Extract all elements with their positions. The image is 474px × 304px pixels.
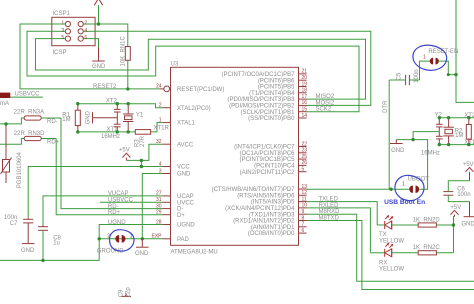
svg-text:1u: 1u bbox=[53, 240, 60, 246]
svg-text:GND: GND bbox=[461, 221, 474, 227]
U3 pin 4 VCC bbox=[159, 161, 191, 170]
U3 pin EXP PAD bbox=[151, 234, 189, 243]
svg-text:MISO2: MISO2 bbox=[316, 94, 335, 100]
svg-text:1: 1 bbox=[61, 21, 64, 27]
svg-text:RXLED: RXLED bbox=[319, 203, 340, 209]
junction PAD/GND drop bbox=[141, 237, 144, 240]
svg-text:RESET2: RESET2 bbox=[93, 84, 117, 90]
capacitor C8 1u bbox=[38, 225, 62, 261]
power +5V symbol (AVCC) bbox=[119, 148, 130, 161]
svg-text:(RXD1/AIN1/INT2)PD2: (RXD1/AIN1/INT2)PD2 bbox=[233, 219, 295, 225]
crystal Y2 16MHz bbox=[435, 112, 454, 144]
svg-text:(OC1A/PCINT8)PC6: (OC1A/PCINT8)PC6 bbox=[239, 151, 295, 157]
wire net XT2 (right) bbox=[439, 113, 474, 119]
svg-text:13: 13 bbox=[302, 184, 308, 190]
wire net MOSI2 (ICSP pin4 to U3 pin 16) bbox=[95, 31, 371, 106]
svg-text:GND: GND bbox=[86, 110, 92, 124]
svg-text:MOSI2: MOSI2 bbox=[316, 100, 335, 106]
U3 pin 22 (INT4/ICP1/CLK0)PC7 bbox=[234, 141, 307, 150]
svg-text:1K RN2C: 1K RN2C bbox=[413, 245, 441, 251]
junction Y2 caps top bbox=[438, 116, 441, 119]
svg-text:15: 15 bbox=[302, 107, 308, 113]
svg-text:C9: C9 bbox=[119, 289, 125, 297]
junction RESET-EN net bbox=[454, 73, 457, 76]
svg-text:ICSP1: ICSP1 bbox=[53, 11, 71, 17]
U3 pin 16 (PDI/MOSI/PCINT2)PB2 bbox=[229, 100, 307, 109]
svg-text:27R: 27R bbox=[140, 135, 146, 147]
ground GND (Y1 caps, rotated) bbox=[86, 110, 118, 124]
svg-text:(CTS/HWB/AIN6/TO/INT7)PD7: (CTS/HWB/AIN6/TO/INT7)PD7 bbox=[212, 187, 296, 193]
svg-text:VUCAP: VUCAP bbox=[108, 191, 129, 197]
svg-text:D+: D+ bbox=[177, 213, 185, 219]
svg-text:USBVCC: USBVCC bbox=[15, 91, 41, 97]
svg-text:22: 22 bbox=[302, 141, 308, 147]
svg-text:RD-: RD- bbox=[47, 119, 58, 125]
svg-text:(PCINT6)PB6: (PCINT6)PB6 bbox=[258, 78, 295, 84]
capacitor C6 100n bbox=[443, 181, 470, 202]
svg-text:(SCLK/PCINT1)PB1: (SCLK/PCINT1)PB1 bbox=[240, 110, 295, 116]
junction C8/ground rail bbox=[41, 259, 44, 262]
power +5V symbol (top, cut off) bbox=[94, 0, 102, 24]
resistor R2 1M bbox=[455, 118, 472, 145]
wire U3 GND pin3 drop bbox=[142, 174, 162, 239]
ground GND (C6) bbox=[461, 202, 474, 228]
wire net TXLED (U3 pin11 to TX LED) bbox=[307, 197, 378, 226]
svg-text:DTR: DTR bbox=[383, 100, 389, 113]
svg-text:C5: C5 bbox=[397, 72, 403, 80]
wire net USBVCC (label stub at U3 pin31) bbox=[100, 198, 163, 204]
wire PAD/EXP to GND and GROUND jumper bbox=[0, 239, 163, 261]
U3 pin 26 (PCINT10)PC4 bbox=[254, 160, 307, 169]
annotation blue circle around UBOOT bbox=[395, 175, 424, 200]
U3 pin 28 UGND bbox=[156, 219, 195, 228]
svg-text:+5V: +5V bbox=[119, 148, 130, 154]
svg-text:100n: 100n bbox=[4, 215, 17, 221]
capacitor C 22p upper (Y1 load) bbox=[114, 104, 121, 118]
svg-text:RESET(PC1/DW): RESET(PC1/DW) bbox=[177, 87, 224, 93]
wire net RXLED (U3 pin10 to RX LED) bbox=[307, 203, 371, 253]
resistor RN2C 1K bbox=[413, 245, 454, 255]
junction caps top bbox=[116, 102, 119, 105]
svg-text:M8TXD: M8TXD bbox=[319, 215, 340, 221]
svg-text:Y1: Y1 bbox=[136, 112, 144, 118]
jumper UBOOT (solder jumper) bbox=[402, 176, 429, 193]
U3 pin 9 (TXD1/INT3)PD3 bbox=[249, 209, 307, 218]
capacitor 22p upper (Y2 load) bbox=[436, 118, 443, 132]
svg-text:(PCINT10)PC4: (PCINT10)PC4 bbox=[254, 164, 295, 170]
wire vertical from top to RESET-EN bbox=[455, 0, 457, 75]
svg-text:26: 26 bbox=[302, 160, 308, 166]
wire net XT2 bbox=[78, 99, 163, 108]
svg-text:(PCINT5)PB5: (PCINT5)PB5 bbox=[258, 85, 295, 91]
U3 pin 23 (OC1A/PCINT8)PC6 bbox=[239, 148, 307, 157]
svg-text:10K RN1C: 10K RN1C bbox=[121, 35, 127, 66]
jumper RESET-EN (solder jumper) bbox=[420, 49, 459, 80]
wire VCC rail to C7 bbox=[28, 160, 162, 217]
junction +5V/VCC riser top bbox=[140, 159, 143, 162]
svg-text:YELLOW: YELLOW bbox=[379, 267, 404, 273]
wire Y2 caps common to GND and UBOOT bbox=[396, 132, 439, 190]
junction Y2 top bbox=[447, 116, 450, 119]
svg-text:RESET-EN: RESET-EN bbox=[428, 49, 458, 55]
ground GND (Y2) bbox=[390, 140, 405, 155]
junction caps bottom bbox=[116, 130, 119, 133]
svg-text:16MHz: 16MHz bbox=[101, 134, 120, 140]
svg-text:UCAP: UCAP bbox=[177, 194, 194, 200]
svg-text:22p: 22p bbox=[126, 287, 132, 298]
svg-text:(XCK/AIN4/PCINT12)PD4: (XCK/AIN4/PCINT12)PD4 bbox=[225, 206, 295, 212]
U3 pin 30 D- bbox=[156, 203, 183, 212]
U3 pin 20 (PCINT6)PB6 bbox=[258, 75, 307, 84]
svg-text:+5V: +5V bbox=[450, 205, 461, 211]
svg-text:GND: GND bbox=[21, 248, 35, 254]
wire net RD+ to U3 pin29 bbox=[56, 139, 162, 217]
U3 pin 13 (CTS/HWB/AIN6/TO/INT7)PD7 bbox=[212, 184, 308, 193]
svg-text:RD+: RD+ bbox=[47, 140, 60, 146]
resistor RN3D 22R bbox=[14, 131, 60, 146]
svg-text:Y2: Y2 bbox=[435, 112, 443, 118]
U3 pin 8 (RXD1/AIN1/INT2)PD2 bbox=[233, 215, 306, 224]
junction UGND/GROUND bbox=[98, 237, 101, 240]
U3 pin 31 UVCC bbox=[156, 197, 195, 206]
U3 pin 21 (PCINT7/OC0A/OC1C)PB7 bbox=[221, 69, 307, 78]
U3 pin 12 (RTS/AIN5/INT6)PD6 bbox=[237, 190, 307, 199]
svg-text:16MHz: 16MHz bbox=[421, 150, 440, 156]
fuse F1 (USBVCC, cut off at edge) bbox=[0, 91, 43, 107]
svg-text:11: 11 bbox=[302, 196, 307, 202]
svg-text:SCK2: SCK2 bbox=[316, 107, 332, 113]
U3 pin 7 (AIN0/INT1)PD1 bbox=[251, 222, 307, 231]
annotation blue circle around GROUND bbox=[110, 230, 135, 251]
resistor RN3A 22R bbox=[14, 110, 61, 126]
svg-text:(PDI/MOSI/PCINT2)PB2: (PDI/MOSI/PCINT2)PB2 bbox=[229, 104, 295, 110]
U3 pin 32 AVCC bbox=[156, 139, 194, 148]
svg-text:GND: GND bbox=[135, 251, 149, 257]
svg-text:(PCINT7/OC0A/OC1C)PB7: (PCINT7/OC0A/OC1C)PB7 bbox=[221, 72, 295, 78]
svg-text:(PCINT9/OC1B)PC5: (PCINT9/OC1B)PC5 bbox=[239, 157, 295, 163]
wire net SCK2 (ICSP pin3 loop to U3 pin 15) bbox=[27, 31, 359, 112]
junction Y1 bottom bbox=[127, 130, 130, 133]
U3 pin 18 (T1/PCINT4)PB4 bbox=[249, 88, 307, 97]
svg-text:3: 3 bbox=[61, 28, 64, 34]
wire net XT1 (right) bbox=[439, 140, 474, 146]
wire net MISO2 (ICSP pin5 loop to U3 pin 17) bbox=[36, 39, 366, 100]
resistor R3 27R bbox=[135, 130, 151, 147]
svg-text:1M: 1M bbox=[62, 117, 70, 123]
ground GND (C7) bbox=[21, 244, 35, 255]
U3 pin 14 (SS/PCINT0)PB0 bbox=[248, 113, 307, 122]
junction Y1 top bbox=[127, 102, 130, 105]
svg-text:XTAL1: XTAL1 bbox=[177, 121, 196, 127]
svg-text:9: 9 bbox=[302, 209, 305, 215]
svg-text:U3: U3 bbox=[171, 62, 179, 68]
jumper GROUND (solder jumper, annotated) bbox=[97, 233, 133, 254]
svg-text:XTAL2(PC0): XTAL2(PC0) bbox=[177, 106, 211, 112]
power +5V symbol (LEDs) bbox=[450, 205, 461, 253]
svg-text:6: 6 bbox=[302, 228, 305, 234]
wire net D+ from USB bbox=[0, 139, 24, 145]
resistor RN2D 1K bbox=[413, 218, 454, 227]
svg-text:GND: GND bbox=[391, 148, 405, 154]
svg-text:1M: 1M bbox=[455, 133, 463, 139]
wire net VUCAP to C8 bbox=[43, 191, 163, 225]
svg-text:17: 17 bbox=[302, 94, 308, 100]
capacitor C9 22p (cut off at bottom) bbox=[119, 287, 132, 298]
svg-text:PGB1010604: PGB1010604 bbox=[17, 152, 23, 189]
svg-text:(INT4/ICP1/CLK0)PC7: (INT4/ICP1/CLK0)PC7 bbox=[234, 145, 295, 151]
junction Y2 caps bottom bbox=[438, 143, 441, 146]
svg-text:(PD0/MISO/PCINT3)PB3: (PD0/MISO/PCINT3)PB3 bbox=[227, 97, 295, 103]
svg-text:(AIN2/PCINT11)PC2: (AIN2/PCINT11)PC2 bbox=[240, 170, 296, 176]
svg-text:USBVCC: USBVCC bbox=[108, 198, 134, 204]
svg-text:100n: 100n bbox=[414, 69, 420, 82]
wire ICSP pin6 to GND bbox=[95, 39, 98, 61]
junction RN1C-RESET2 bbox=[126, 87, 129, 90]
wire net DTR bbox=[383, 80, 389, 189]
svg-text:XT1R: XT1R bbox=[154, 126, 170, 132]
capacitor C7 100n bbox=[4, 215, 33, 243]
svg-text:UGND: UGND bbox=[177, 223, 195, 229]
wire RESET-EN to right edge bbox=[456, 75, 474, 103]
svg-text:(TXD1/INT3)PD3: (TXD1/INT3)PD3 bbox=[249, 212, 295, 218]
svg-text:D-: D- bbox=[177, 207, 183, 213]
wire net XT1 bbox=[77, 123, 170, 140]
svg-text:USB Boot En: USB Boot En bbox=[384, 199, 425, 206]
svg-text:RD-: RD- bbox=[108, 204, 119, 210]
LED TX YELLOW bbox=[377, 215, 418, 244]
wire AVCC to +5V bbox=[126, 144, 162, 160]
junction DTR/UBOOT bbox=[389, 188, 392, 191]
junction R2 bottom bbox=[467, 143, 470, 146]
U3 pin 5 (AIN2/PCINT11)PC2 bbox=[240, 167, 307, 176]
chip U3 body ATMEGA8U2-MU bbox=[171, 62, 299, 256]
capacitor C 22p lower (Y1 load) bbox=[114, 118, 121, 132]
wire net M8RXD (U3 pin9, loops to right edge) bbox=[307, 209, 474, 281]
svg-text:5: 5 bbox=[302, 167, 305, 173]
wire net M8TXD (U3 pin8, loops to right edge) bbox=[307, 215, 474, 289]
svg-text:(RTS/AIN5/INT6)PD6: (RTS/AIN5/INT6)PD6 bbox=[237, 193, 295, 199]
U3 pin 27 UCAP bbox=[156, 191, 194, 200]
resistor RN1C 10K bbox=[121, 35, 131, 88]
svg-text:16: 16 bbox=[302, 100, 308, 106]
U3 pin 24 RESET(PC1/DW) bbox=[156, 84, 224, 93]
wire U3 pin13 to UBOOT jumper bbox=[307, 188, 409, 190]
svg-text:1: 1 bbox=[402, 182, 405, 188]
svg-text:10: 10 bbox=[302, 203, 308, 209]
junction RN2D/+5V bbox=[452, 223, 455, 226]
capacitor C5 100n bbox=[389, 69, 420, 85]
svg-text:21: 21 bbox=[302, 69, 308, 75]
ground GND (ICSP) bbox=[92, 61, 106, 70]
svg-text:(T1/PCINT4)PB4: (T1/PCINT4)PB4 bbox=[249, 91, 295, 97]
junction Y2 GND node bbox=[411, 138, 414, 141]
svg-text:8: 8 bbox=[302, 215, 305, 221]
wire net RD- to U3 pin30 bbox=[61, 118, 163, 210]
svg-text:19: 19 bbox=[302, 81, 308, 87]
U3 pin 11 (INT5/AIN3)PD5 bbox=[251, 196, 307, 205]
svg-text:23: 23 bbox=[302, 148, 308, 154]
svg-text:5: 5 bbox=[61, 35, 64, 41]
svg-text:VCC: VCC bbox=[177, 165, 190, 171]
svg-text:RD+: RD+ bbox=[108, 210, 121, 216]
svg-text:7: 7 bbox=[302, 222, 305, 228]
svg-text:TX: TX bbox=[379, 232, 387, 238]
svg-text:M8RXD: M8RXD bbox=[319, 209, 341, 215]
svg-text:YELLOW: YELLOW bbox=[379, 238, 404, 244]
U3 pin 1 XTAL1 bbox=[159, 117, 196, 126]
U3 pin 29 D+ bbox=[156, 210, 185, 219]
wire net D- from USB bbox=[0, 118, 24, 124]
wire net UGND bbox=[99, 220, 162, 239]
svg-text:+5V: +5V bbox=[463, 162, 474, 168]
svg-text:1K RN2D: 1K RN2D bbox=[413, 218, 441, 224]
svg-text:2: 2 bbox=[84, 21, 87, 27]
svg-text:1: 1 bbox=[423, 55, 426, 61]
svg-text:20: 20 bbox=[302, 75, 308, 81]
svg-text:4: 4 bbox=[84, 28, 87, 34]
U3 pin 10 (XCK/AIN4/PCINT12)PD4 bbox=[225, 203, 307, 212]
crystal Y1 16MHz bbox=[123, 104, 144, 132]
U3 pin 15 (SCLK/PCINT1)PB1 bbox=[240, 107, 307, 116]
svg-text:(SS/PCINT0)PB0: (SS/PCINT0)PB0 bbox=[248, 116, 295, 122]
svg-text:100n: 100n bbox=[457, 192, 470, 198]
svg-text:ICSP: ICSP bbox=[53, 50, 67, 56]
svg-text:12: 12 bbox=[302, 190, 308, 196]
junction R1 bottom bbox=[76, 130, 79, 133]
svg-text:22R RN3D: 22R RN3D bbox=[14, 131, 45, 137]
svg-text:RX: RX bbox=[379, 260, 387, 266]
svg-text:ATMEGA8U2-MU: ATMEGA8U2-MU bbox=[171, 250, 218, 256]
ground GND (U3 pad) bbox=[135, 239, 149, 257]
svg-text:18: 18 bbox=[302, 88, 308, 94]
U3 pin 6 (OC0B/INT0)PD0 bbox=[248, 228, 307, 237]
junction +5V/VCC riser bottom bbox=[140, 165, 143, 168]
U3 pin 3 GND bbox=[159, 168, 191, 177]
junction R1 top bbox=[76, 102, 79, 105]
svg-text:C7: C7 bbox=[10, 221, 18, 227]
U3 pin 19 (PCINT5)PB5 bbox=[258, 81, 307, 90]
LED RX YELLOW bbox=[370, 243, 418, 273]
annotation blue circle around RESET-EN bbox=[413, 45, 447, 70]
svg-text:(AIN0/INT1)PD1: (AIN0/INT1)PD1 bbox=[251, 225, 295, 231]
svg-text:UGND: UGND bbox=[108, 220, 126, 226]
svg-text:GND: GND bbox=[92, 64, 106, 70]
wire net RESET2 (ICSP pin1 loop to U3 pin 24) bbox=[20, 24, 160, 90]
junction R2 top bbox=[467, 116, 470, 119]
power +5V symbol (C6) bbox=[463, 162, 474, 181]
svg-text:PAD: PAD bbox=[177, 237, 190, 243]
junction Z1/D- bbox=[4, 122, 7, 125]
svg-text:AVCC: AVCC bbox=[177, 142, 194, 148]
wire +5V to ICSP pin2 and RN1C bbox=[95, 24, 128, 47]
svg-text:UVCC: UVCC bbox=[177, 200, 195, 206]
capacitor 22p lower (Y2 load) bbox=[436, 132, 443, 145]
resistor R1 1M bbox=[62, 104, 80, 132]
varistor Z1 PGB1010604 bbox=[1, 124, 23, 188]
svg-text:(OC0B/INT0)PD0: (OC0B/INT0)PD0 bbox=[248, 231, 295, 237]
svg-text:mA: mA bbox=[0, 101, 9, 107]
connector ICSP1 bbox=[52, 11, 95, 56]
svg-text:UBOOT: UBOOT bbox=[408, 176, 430, 182]
svg-text:25: 25 bbox=[302, 154, 308, 160]
junction ICSP +5V bbox=[97, 22, 100, 25]
junction Y2 bottom bbox=[447, 143, 450, 146]
U3 pin 2 XTAL2(PC0) bbox=[159, 103, 211, 112]
U3 pin 25 (PCINT9/OC1B)PC5 bbox=[239, 154, 307, 163]
svg-text:(INT5/AIN3)PD5: (INT5/AIN3)PD5 bbox=[251, 200, 295, 206]
svg-text:6: 6 bbox=[84, 35, 87, 41]
svg-text:TXLED: TXLED bbox=[319, 197, 339, 203]
svg-text:GND: GND bbox=[177, 172, 191, 178]
U3 pin 17 (PD0/MISO/PCINT3)PB3 bbox=[227, 94, 307, 103]
svg-text:22R RN3A: 22R RN3A bbox=[14, 110, 44, 116]
svg-text:14: 14 bbox=[302, 113, 308, 119]
